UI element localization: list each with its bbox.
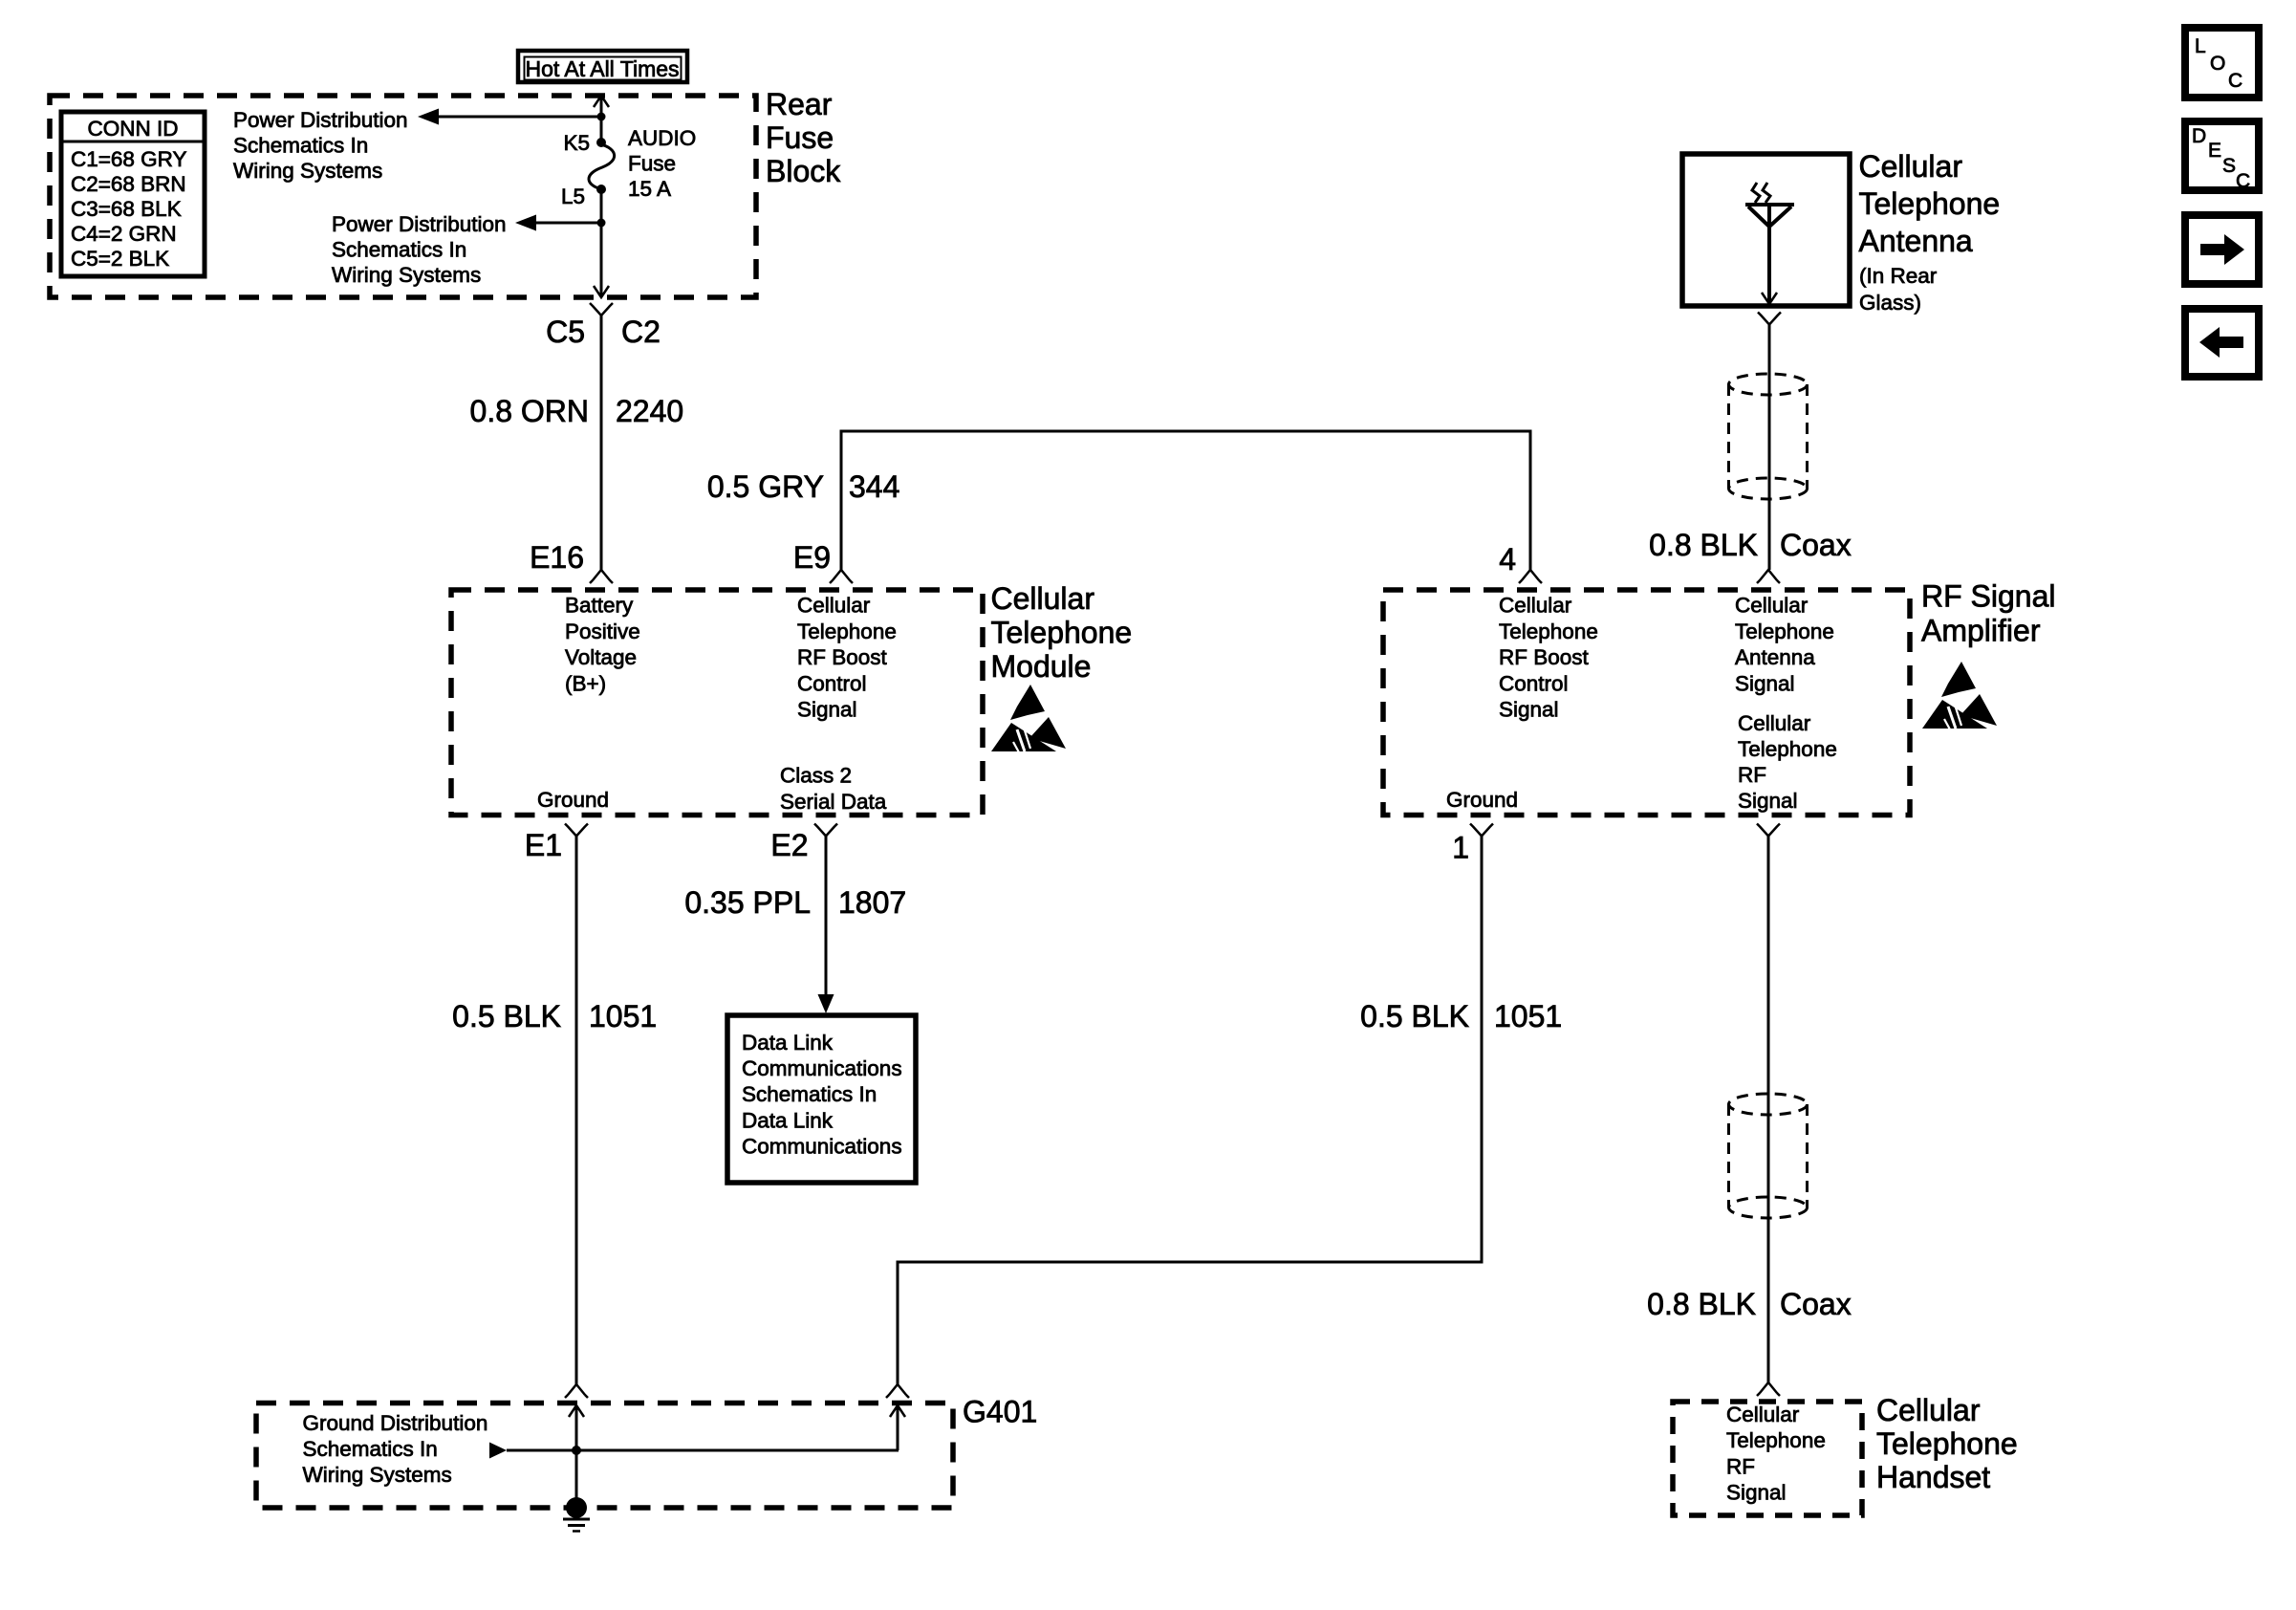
svg-text:0.8 BLK: 0.8 BLK (1647, 1287, 1756, 1321)
svg-text:344: 344 (849, 469, 899, 504)
svg-text:1051: 1051 (1494, 999, 1562, 1033)
svg-text:0.8 BLK: 0.8 BLK (1649, 528, 1758, 562)
svg-text:Cellular: Cellular (1499, 594, 1572, 618)
svg-text:AUDIO: AUDIO (628, 126, 696, 150)
svg-text:2240: 2240 (616, 394, 683, 428)
svg-text:Amplifier: Amplifier (1921, 614, 2041, 648)
svg-text:L: L (2195, 35, 2206, 57)
svg-text:Antenna: Antenna (1859, 224, 1973, 258)
svg-text:Antenna: Antenna (1735, 645, 1815, 669)
svg-text:C5: C5 (546, 315, 585, 349)
svg-text:K5: K5 (563, 131, 590, 155)
svg-text:Handset: Handset (1876, 1460, 1990, 1494)
svg-text:Schematics In: Schematics In (742, 1082, 877, 1106)
svg-text:Schematics In: Schematics In (303, 1437, 438, 1461)
svg-text:Block: Block (766, 154, 841, 188)
svg-text:E1: E1 (525, 828, 562, 862)
svg-text:Telephone: Telephone (1876, 1426, 2018, 1461)
svg-text:C1=68 GRY: C1=68 GRY (71, 147, 187, 171)
svg-text:15 A: 15 A (628, 177, 671, 201)
svg-text:Wiring Systems: Wiring Systems (233, 159, 382, 183)
svg-text:Rear: Rear (766, 87, 833, 121)
svg-text:Control: Control (797, 671, 867, 695)
svg-text:Communications: Communications (742, 1056, 902, 1080)
svg-text:Signal: Signal (1735, 671, 1795, 695)
svg-text:RF Signal: RF Signal (1921, 579, 2056, 614)
svg-text:1: 1 (1452, 831, 1469, 865)
svg-text:Battery: Battery (565, 594, 634, 618)
svg-text:RF: RF (1738, 763, 1766, 787)
svg-text:RF: RF (1726, 1454, 1755, 1478)
svg-text:(In Rear: (In Rear (1859, 264, 1938, 288)
svg-text:E2: E2 (770, 828, 808, 862)
svg-text:Cellular: Cellular (1859, 149, 1963, 184)
svg-text:Signal: Signal (1738, 789, 1798, 813)
svg-text:0.8 ORN: 0.8 ORN (470, 394, 589, 428)
svg-text:C2=68 BRN: C2=68 BRN (71, 172, 186, 196)
svg-text:Coax: Coax (1780, 528, 1852, 562)
svg-text:0.5 GRY: 0.5 GRY (707, 469, 824, 504)
svg-text:Signal: Signal (797, 698, 857, 722)
svg-text:Coax: Coax (1780, 1287, 1852, 1321)
svg-text:Wiring Systems: Wiring Systems (332, 263, 481, 287)
svg-text:Glass): Glass) (1859, 291, 1921, 315)
svg-text:1807: 1807 (838, 885, 906, 920)
svg-text:CONN ID: CONN ID (88, 117, 179, 141)
svg-text:C: C (2236, 170, 2250, 192)
svg-text:C4=2 GRN: C4=2 GRN (71, 222, 177, 246)
svg-text:Cellular: Cellular (1735, 594, 1809, 618)
svg-text:Telephone: Telephone (1738, 737, 1837, 761)
svg-text:E16: E16 (530, 540, 584, 575)
svg-text:Control: Control (1499, 671, 1569, 695)
svg-text:RF Boost: RF Boost (797, 645, 888, 669)
svg-text:C5=2 BLK: C5=2 BLK (71, 247, 169, 271)
svg-text:E9: E9 (793, 540, 831, 575)
svg-text:Telephone: Telephone (1859, 186, 2001, 221)
svg-text:Data Link: Data Link (742, 1108, 834, 1132)
svg-text:Fuse: Fuse (628, 152, 676, 176)
svg-text:Ground: Ground (1446, 788, 1518, 812)
svg-text:Data Link: Data Link (742, 1031, 834, 1055)
svg-text:Telephone: Telephone (1735, 620, 1834, 643)
svg-text:Class 2: Class 2 (780, 764, 852, 788)
svg-text:RF Boost: RF Boost (1499, 645, 1590, 669)
svg-text:O: O (2210, 53, 2225, 75)
svg-text:Wiring Systems: Wiring Systems (303, 1463, 452, 1487)
svg-text:Power Distribution: Power Distribution (233, 108, 408, 132)
svg-text:Cellular: Cellular (1876, 1393, 1981, 1427)
svg-text:(B+): (B+) (565, 671, 606, 695)
svg-text:Signal: Signal (1499, 698, 1559, 722)
svg-text:Cellular: Cellular (991, 581, 1095, 616)
svg-text:Positive: Positive (565, 620, 640, 643)
svg-text:L5: L5 (561, 185, 585, 208)
svg-text:Ground: Ground (537, 788, 609, 812)
svg-text:Signal: Signal (1726, 1481, 1787, 1505)
svg-text:0.5 BLK: 0.5 BLK (452, 999, 561, 1033)
svg-text:Schematics In: Schematics In (332, 238, 466, 262)
svg-text:Cellular: Cellular (1726, 1403, 1800, 1426)
svg-text:C: C (2228, 70, 2242, 92)
svg-text:Cellular: Cellular (1738, 711, 1811, 735)
svg-text:Telephone: Telephone (991, 616, 1133, 650)
svg-text:S: S (2222, 155, 2236, 177)
svg-text:Telephone: Telephone (797, 620, 897, 643)
svg-text:Voltage: Voltage (565, 645, 637, 669)
svg-text:Cellular: Cellular (797, 594, 871, 618)
svg-text:0.35 PPL: 0.35 PPL (684, 885, 811, 920)
svg-text:Communications: Communications (742, 1134, 902, 1158)
svg-text:Module: Module (991, 649, 1092, 684)
svg-text:4: 4 (1499, 542, 1516, 577)
svg-text:Schematics In: Schematics In (233, 134, 368, 158)
svg-text:C3=68 BLK: C3=68 BLK (71, 197, 182, 221)
svg-text:Serial Data: Serial Data (780, 790, 887, 814)
svg-text:Fuse: Fuse (766, 120, 834, 155)
svg-text:1051: 1051 (589, 999, 657, 1033)
svg-text:Telephone: Telephone (1499, 620, 1598, 643)
svg-text:E: E (2208, 140, 2221, 162)
svg-text:C2: C2 (621, 315, 661, 349)
svg-text:D: D (2192, 125, 2206, 147)
svg-text:G401: G401 (963, 1395, 1037, 1429)
svg-text:Telephone: Telephone (1726, 1428, 1826, 1452)
svg-text:0.5 BLK: 0.5 BLK (1360, 999, 1469, 1033)
svg-text:Ground Distribution: Ground Distribution (303, 1411, 488, 1435)
svg-text:Power Distribution: Power Distribution (332, 212, 507, 236)
svg-text:Hot At All Times: Hot At All Times (525, 56, 679, 81)
